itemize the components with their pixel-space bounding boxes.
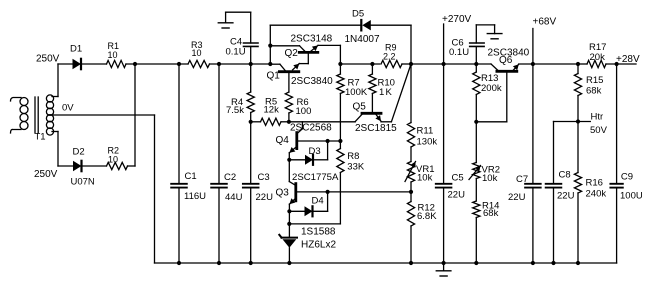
svg-text:C7: C7 [516, 174, 528, 185]
svg-text:R11: R11 [417, 126, 434, 137]
svg-text:50V: 50V [590, 125, 608, 136]
svg-text:R15: R15 [586, 75, 603, 86]
svg-text:D4: D4 [312, 196, 324, 207]
svg-text:116U: 116U [184, 191, 206, 202]
svg-text:22U: 22U [557, 190, 575, 201]
svg-text:10k: 10k [482, 173, 498, 184]
svg-text:Htr: Htr [591, 112, 604, 123]
svg-text:R16: R16 [586, 178, 603, 189]
svg-text:+68V: +68V [533, 17, 557, 28]
svg-text:10: 10 [108, 50, 118, 60]
svg-text:100U: 100U [620, 191, 643, 202]
svg-text:2SC2568: 2SC2568 [290, 123, 332, 134]
svg-text:Q6: Q6 [499, 55, 513, 66]
svg-text:2.2: 2.2 [383, 51, 396, 61]
svg-text:C8: C8 [559, 170, 571, 181]
svg-text:D3: D3 [309, 146, 321, 157]
svg-text:HZ6Lx2: HZ6Lx2 [301, 240, 336, 251]
svg-text:1N4007: 1N4007 [345, 34, 380, 45]
svg-text:10: 10 [192, 48, 202, 58]
svg-text:Q5: Q5 [353, 102, 367, 113]
svg-text:D1: D1 [70, 44, 82, 55]
svg-text:20k: 20k [590, 52, 606, 63]
svg-text:C9: C9 [621, 172, 633, 183]
svg-text:10: 10 [108, 155, 118, 165]
svg-text:0V: 0V [62, 103, 74, 114]
svg-text:Q1: Q1 [267, 71, 281, 82]
svg-text:10k: 10k [417, 173, 433, 184]
svg-text:2SC1815: 2SC1815 [355, 123, 397, 134]
svg-text:22U: 22U [508, 192, 526, 203]
svg-text:68k: 68k [483, 208, 499, 219]
svg-text:100K: 100K [345, 87, 368, 98]
svg-text:68k: 68k [586, 86, 602, 97]
svg-text:6.8K: 6.8K [417, 211, 437, 222]
svg-text:+270V: +270V [442, 14, 472, 25]
svg-text:C5: C5 [452, 173, 464, 184]
svg-text:D5: D5 [352, 9, 364, 20]
svg-text:C3: C3 [258, 172, 270, 183]
svg-text:D2: D2 [73, 147, 85, 158]
svg-text:Q4: Q4 [276, 135, 290, 146]
svg-text:22U: 22U [256, 192, 274, 203]
svg-text:R8: R8 [347, 151, 359, 162]
svg-text:100: 100 [296, 106, 312, 117]
svg-text:1S1588: 1S1588 [301, 227, 336, 238]
svg-text:12k: 12k [264, 105, 280, 116]
svg-text:7.5k: 7.5k [226, 105, 244, 116]
svg-text:C2: C2 [224, 172, 236, 183]
svg-text:2SC3840: 2SC3840 [291, 76, 333, 87]
svg-text:33K: 33K [347, 162, 365, 173]
svg-text:22U: 22U [448, 190, 466, 201]
svg-text:0.1U: 0.1U [226, 47, 246, 58]
svg-text:1K: 1K [379, 87, 393, 98]
svg-text:2SC3148: 2SC3148 [291, 34, 333, 45]
svg-text:240k: 240k [586, 188, 607, 199]
svg-text:T1: T1 [35, 132, 46, 143]
svg-text:2SC1775A: 2SC1775A [292, 172, 339, 183]
svg-text:130k: 130k [417, 136, 438, 147]
svg-text:44U: 44U [225, 192, 243, 203]
svg-text:250V: 250V [34, 169, 58, 180]
svg-text:U07N: U07N [71, 177, 95, 188]
svg-text:+28V: +28V [616, 54, 640, 65]
svg-text:Q3: Q3 [276, 188, 290, 199]
svg-text:Q2: Q2 [285, 48, 299, 59]
svg-text:250V: 250V [36, 54, 60, 65]
svg-text:0.1U: 0.1U [449, 47, 469, 58]
svg-text:C1: C1 [185, 171, 197, 182]
svg-text:200k: 200k [481, 83, 502, 94]
